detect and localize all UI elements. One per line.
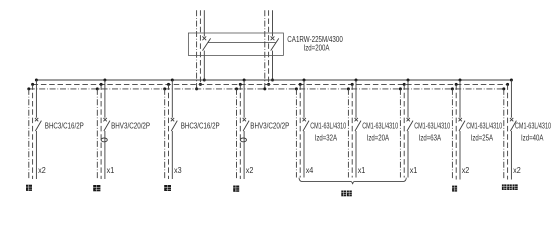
wire: incomer 1 phase conductor lower segment [203, 51, 205, 80]
breaker drop 9 blade [510, 121, 516, 131]
wire: drop 5 phase conductor upper segment [303, 80, 305, 118]
wire: incomer 1 phase conductor upper segment [203, 10, 205, 36]
svg-text:Izd=40A: Izd=40A [521, 133, 544, 143]
busbar L (solid) [36, 79, 511, 81]
main breaker CA1RW-225M/4300 enclosure box [188, 33, 283, 55]
node: drop 1 junction dots on busbars [27, 79, 38, 91]
node: drop 5 junction dots on busbars [295, 79, 306, 91]
breaker drop 8 contact mark [459, 118, 462, 121]
wire: drop 5 phase conductor lower segment [303, 131, 305, 178]
wire: drop 3 PE conductor (dash-dot) [164, 89, 166, 179]
breaker drop 1 blade [35, 121, 41, 131]
breaker QF main pole 1 blade [203, 38, 211, 50]
label: load name under drop 2 [93, 185, 100, 191]
brace grouping drops 5-7 [299, 178, 406, 185]
label: load name under brace (drops 5-7) [341, 191, 352, 197]
node: drop 6 junction dots on busbars [347, 79, 358, 91]
label: load name under drop 3 [164, 185, 171, 191]
svg-text:x2: x2 [38, 165, 46, 175]
wire: drop 7 N conductor (dashed) [403, 84, 405, 177]
svg-text:x1: x1 [107, 165, 115, 175]
wire: drop 6 phase conductor upper segment [355, 80, 357, 118]
node: drop 3 junction dots on busbars [163, 79, 174, 91]
wire: drop 7 phase conductor lower segment [407, 131, 409, 178]
svg-text:x3: x3 [174, 165, 182, 175]
wire: incomer 1 N conductor (dashed) [199, 10, 201, 84]
wire: drop 2 PE conductor (dash-dot) [96, 89, 98, 179]
svg-text:x4: x4 [306, 165, 314, 175]
svg-text:CM1-63L/4310: CM1-63L/4310 [310, 120, 346, 130]
breaker drop 2 blade [104, 121, 110, 131]
breaker drop 2 contact mark [103, 118, 106, 121]
svg-text:BHV3/C20/2P: BHV3/C20/2P [111, 120, 150, 130]
node: drop 7 junction dots on busbars [399, 79, 410, 91]
wire: drop 9 PE conductor (dash-dot) [503, 89, 505, 180]
wire: drop 2 phase conductor upper segment [104, 80, 106, 118]
busbar PE (dash-dot) [29, 88, 504, 90]
wire: incomer 1 PE conductor (dash-dot) [196, 10, 198, 89]
node: drop 8 junction dots on busbars [451, 79, 462, 91]
svg-text:CM1-63L/4310: CM1-63L/4310 [515, 120, 551, 130]
breaker drop 9 contact mark [510, 118, 513, 121]
wire: mechanical linkage between main breaker poles [208, 42, 276, 44]
wire: drop 3 phase conductor lower segment [171, 131, 173, 179]
breaker drop 3 blade [171, 121, 177, 131]
wire: drop 9 phase conductor lower segment [510, 131, 512, 180]
label: load name under drop 9 [502, 184, 518, 190]
wire: incomer 2 N conductor (dashed) [268, 10, 270, 84]
breaker drop 8 blade [459, 121, 465, 131]
wire: drop 6 PE conductor (dash-dot) [347, 89, 349, 178]
svg-text:CM1-63L/4310: CM1-63L/4310 [362, 120, 398, 130]
wire: incomer 2 phase conductor upper segment [272, 10, 274, 36]
node: drop 2 junction dots on busbars [96, 79, 107, 91]
node: drop 9 junction dots on busbars [502, 79, 513, 91]
breaker drop 3 contact mark [171, 118, 174, 121]
wire: drop 9 N conductor (dashed) [507, 84, 509, 179]
wire: drop 7 phase conductor upper segment [407, 80, 409, 118]
breaker drop 7 blade [407, 121, 413, 131]
svg-text:Izd=32A: Izd=32A [315, 133, 338, 143]
svg-text:Izd=20A: Izd=20A [367, 133, 390, 143]
wire: drop 3 N conductor (dashed) [168, 84, 170, 179]
wire: drop 8 phase conductor upper segment [459, 80, 461, 118]
wire: drop 1 phase conductor upper segment [35, 80, 37, 118]
svg-text:x1: x1 [358, 165, 366, 175]
wire: drop 6 phase conductor lower segment [355, 131, 357, 178]
wire: drop 4 phase conductor upper segment [243, 80, 245, 118]
wire: drop 4 N conductor (dashed) [239, 84, 241, 179]
svg-text:x2: x2 [246, 165, 254, 175]
node: incomer 1 junctions on busbars [195, 79, 206, 91]
node: incomer 2 junctions on busbars [263, 79, 274, 91]
breaker drop 1 contact mark [35, 118, 38, 121]
busbar N (dashed) [33, 83, 508, 85]
svg-text:BHC3/C16/2P: BHC3/C16/2P [181, 120, 220, 130]
label: load name under drop 1 [26, 185, 32, 191]
svg-text:x2: x2 [462, 165, 470, 175]
label: load name under drop 8 [452, 186, 457, 192]
wire: drop 5 PE conductor (dash-dot) [295, 89, 297, 178]
svg-text:CM1-63L/4310: CM1-63L/4310 [414, 120, 450, 130]
wire: incomer 2 PE conductor (dash-dot) [264, 10, 266, 89]
svg-text:x1: x1 [410, 165, 418, 175]
wire: drop 7 PE conductor (dash-dot) [399, 89, 401, 178]
breaker QF main pole 2 blade [271, 38, 279, 50]
meter/connector ellipse on drop 2 [101, 138, 107, 142]
breaker QF main pole 2 contact mark [271, 36, 275, 40]
breaker drop 5 contact mark [303, 118, 306, 121]
breaker drop 7 contact mark [407, 118, 410, 121]
wire: drop 4 phase conductor lower segment [243, 131, 245, 179]
svg-text:CM1-63L/4310: CM1-63L/4310 [466, 120, 502, 130]
wire: drop 2 N conductor (dashed) [100, 84, 102, 179]
svg-text:Izd=25A: Izd=25A [471, 133, 494, 143]
node: drop 4 junction dots on busbars [235, 79, 246, 91]
breaker drop 6 blade [355, 121, 361, 131]
wire: drop 1 N conductor (dashed) [32, 84, 34, 179]
wire: drop 1 phase conductor lower segment [35, 131, 37, 179]
svg-text:BHC3/C16/2P: BHC3/C16/2P [45, 120, 84, 130]
svg-text:BHV3/C20/2P: BHV3/C20/2P [250, 120, 289, 130]
breaker drop 4 contact mark [243, 118, 246, 121]
svg-text:Izd=200A: Izd=200A [304, 42, 330, 52]
wire: drop 1 PE conductor (dash-dot) [28, 89, 30, 179]
wire: drop 5 N conductor (dashed) [299, 84, 301, 177]
wire: drop 8 PE conductor (dash-dot) [451, 89, 453, 180]
breaker drop 6 contact mark [355, 118, 358, 121]
breaker QF main pole 1 contact mark [202, 36, 206, 40]
wire: incomer 2 phase conductor lower segment [272, 51, 274, 80]
label: load name under drop 4 [233, 186, 239, 192]
wire: drop 8 phase conductor lower segment [459, 131, 461, 180]
svg-text:x2: x2 [513, 165, 521, 175]
svg-text:Izd=63A: Izd=63A [419, 133, 442, 143]
breaker drop 4 blade [243, 121, 249, 131]
wire: drop 4 PE conductor (dash-dot) [236, 89, 238, 179]
meter/connector ellipse on drop 4 [240, 138, 246, 142]
wire: drop 3 phase conductor upper segment [171, 80, 173, 118]
wire: drop 2 phase conductor lower segment [104, 131, 106, 179]
wire: drop 9 phase conductor upper segment [510, 80, 512, 118]
breaker drop 5 blade [303, 121, 309, 131]
wire: drop 6 N conductor (dashed) [351, 84, 353, 177]
wire: drop 8 N conductor (dashed) [455, 84, 457, 179]
